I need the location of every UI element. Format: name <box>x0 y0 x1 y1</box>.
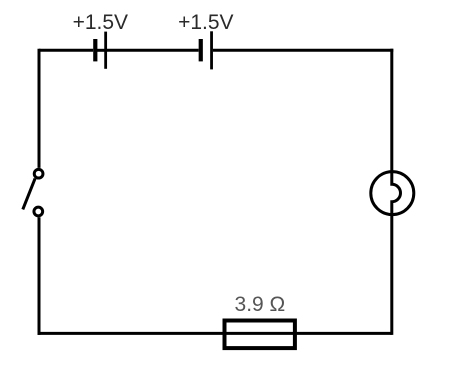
wire bottom <box>38 332 392 335</box>
switch S1 lever <box>23 178 35 209</box>
wire between battery B1 plates <box>96 49 105 52</box>
battery B2 negative plate <box>199 39 203 61</box>
svg-text:+1.5V: +1.5V <box>73 11 128 34</box>
battery B1 negative plate <box>93 39 97 61</box>
switch S1 top contact <box>34 169 43 178</box>
svg-text:+1.5V: +1.5V <box>178 11 233 34</box>
battery B1 positive plate <box>104 32 107 69</box>
resistor R1 <box>225 321 295 349</box>
wire right side with lamp filament bump <box>392 49 401 335</box>
wire top-left corner down to switch <box>38 49 41 168</box>
switch S1 <box>23 169 43 216</box>
wire top-left to battery B1 <box>39 49 93 52</box>
lamp DS1 <box>371 172 414 215</box>
battery B2 <box>201 31 212 69</box>
switch S1 bottom contact <box>34 207 43 216</box>
wire switch to bottom-left corner <box>38 217 41 335</box>
battery B2 positive plate <box>210 31 213 69</box>
wire battery B2 to top-right corner <box>213 49 393 52</box>
svg-text:3.9 Ω: 3.9 Ω <box>235 293 286 316</box>
battery B1 <box>95 32 105 69</box>
wire battery B1 to battery B2 <box>107 49 199 52</box>
